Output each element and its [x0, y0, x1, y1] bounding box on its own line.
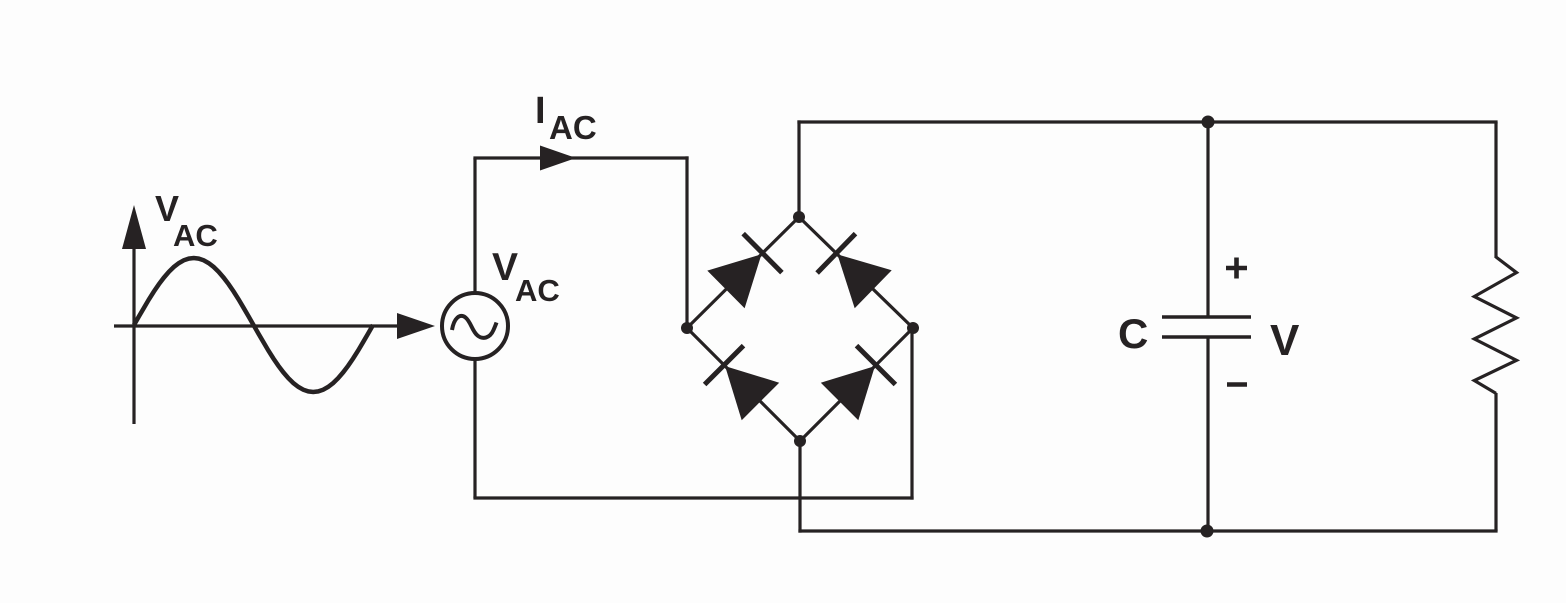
- svg-text:AC: AC: [173, 218, 218, 253]
- svg-text:V: V: [1270, 316, 1300, 365]
- svg-text:AC: AC: [549, 109, 597, 146]
- svg-text:C: C: [1118, 310, 1148, 357]
- svg-text:I: I: [535, 90, 546, 132]
- svg-text:AC: AC: [515, 273, 560, 308]
